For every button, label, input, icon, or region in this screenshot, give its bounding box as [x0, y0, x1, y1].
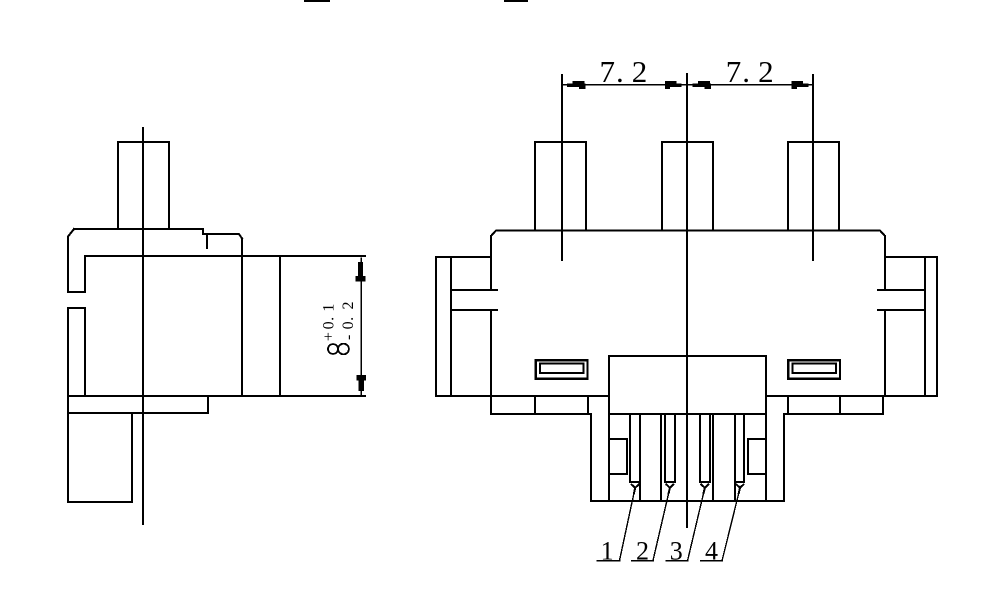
svg-text:3: 3 [670, 537, 683, 566]
label 2 underline [632, 560, 654, 562]
side view body right vertical [241, 239, 243, 397]
label 1 underline [597, 560, 620, 562]
leader line pin 4 [722, 493, 739, 561]
front view right slot rectangle (nested fills) [787, 359, 841, 380]
side view dimension line 8 [360, 258, 362, 395]
front view bottom edge left segment [436, 395, 609, 397]
pin 4 body [735, 414, 744, 501]
leader line pin 2 [653, 493, 669, 561]
pin 1 tip [632, 485, 639, 494]
dimension arrow 7.2 left-right [665, 81, 682, 89]
svg-text:1: 1 [601, 537, 614, 566]
leader line pin 3 [688, 493, 704, 561]
dimension arrow 7.2 right-left [693, 81, 712, 89]
side view left notch upper line [68, 291, 85, 293]
side view inner left vertical upper [84, 256, 86, 292]
side view foot [68, 413, 132, 502]
front view right stem [788, 142, 839, 230]
side view centerline [142, 128, 144, 524]
side view bottom line [68, 395, 365, 397]
svg-text:4: 4 [705, 537, 718, 566]
front view bottom band right dividers [788, 396, 883, 414]
pin 2 wall line [660, 414, 662, 501]
dimension text 8 drawn as two circles (rotated thin CAD glyph) [328, 344, 349, 355]
front view bottom band left dividers [491, 396, 588, 414]
front view right tab plate [925, 257, 937, 396]
front view body left edge lower [490, 310, 492, 396]
svg-text:7.2: 7.2 [726, 54, 774, 89]
top cropped text underline right [505, 0, 527, 2]
svg-text:7.2: 7.2 [600, 54, 648, 89]
svg-text:2: 2 [636, 537, 649, 566]
pin 2 body [665, 414, 675, 482]
front view bottom band left bottom line [491, 413, 590, 415]
pin 3 wall line [712, 414, 714, 501]
front view middle stem [662, 142, 713, 230]
pin 1 body [630, 414, 640, 501]
front view bottom band right bottom line [786, 413, 883, 415]
front view left slot rectangle (nested fills) [535, 359, 589, 380]
pin 4 tip [737, 485, 744, 494]
front view right extension line [812, 75, 814, 260]
label 3 underline [666, 560, 688, 562]
side view stem [118, 142, 169, 229]
pin block left notch [609, 439, 627, 474]
front view top dimension line [562, 84, 813, 86]
front view bottom edge right segment [766, 395, 937, 397]
side view body top-left chamfer and left edge upper [68, 229, 74, 292]
dimension arrow 7.2 left-left [567, 81, 586, 89]
pin 2 tip [666, 485, 673, 494]
dimension text tolerance +0.1 -0.2 rotated [320, 302, 357, 342]
front view body left edge upper [490, 236, 492, 290]
pin block outer walls [591, 414, 784, 501]
front view body right edge upper [884, 236, 886, 290]
leader line pin 1 [619, 493, 634, 561]
front view bottom recess [609, 356, 766, 414]
dimension arrow 8 top [356, 262, 366, 281]
label 4 underline [701, 560, 723, 562]
front view body top edge with chamfers [491, 231, 885, 237]
side view ledge [68, 396, 208, 413]
pin block bottom [591, 500, 784, 502]
pin 3 tip [701, 485, 708, 494]
side view inner top line [85, 255, 365, 257]
front view centerline [686, 74, 688, 527]
pin block container top [609, 413, 766, 415]
dimension arrow 7.2 right-right [792, 81, 809, 89]
side view body top edge [74, 229, 242, 239]
side view inner left vertical lower [84, 308, 86, 396]
front view body right edge lower [884, 310, 886, 396]
pin block right notch [748, 439, 766, 474]
side view flange inner vertical [279, 256, 281, 396]
front view left tab slot lines [451, 290, 497, 310]
side view left notch lower line [68, 307, 85, 309]
front view left stem [535, 142, 586, 230]
svg-text:+0.1: +0.1 [320, 304, 337, 342]
dimension arrow 8 bottom [356, 375, 366, 391]
side view left edge lower [67, 308, 69, 502]
pin 3 body [700, 414, 710, 482]
front view right tab top line [885, 256, 937, 258]
pin block container walls [609, 414, 766, 501]
top cropped text underline left [305, 0, 329, 2]
front view left extension line [561, 75, 563, 260]
front view right tab slot lines [878, 290, 925, 310]
front view left tab top line [436, 256, 491, 258]
side view top tick detail [206, 234, 208, 248]
front view left tab plate [436, 257, 451, 396]
